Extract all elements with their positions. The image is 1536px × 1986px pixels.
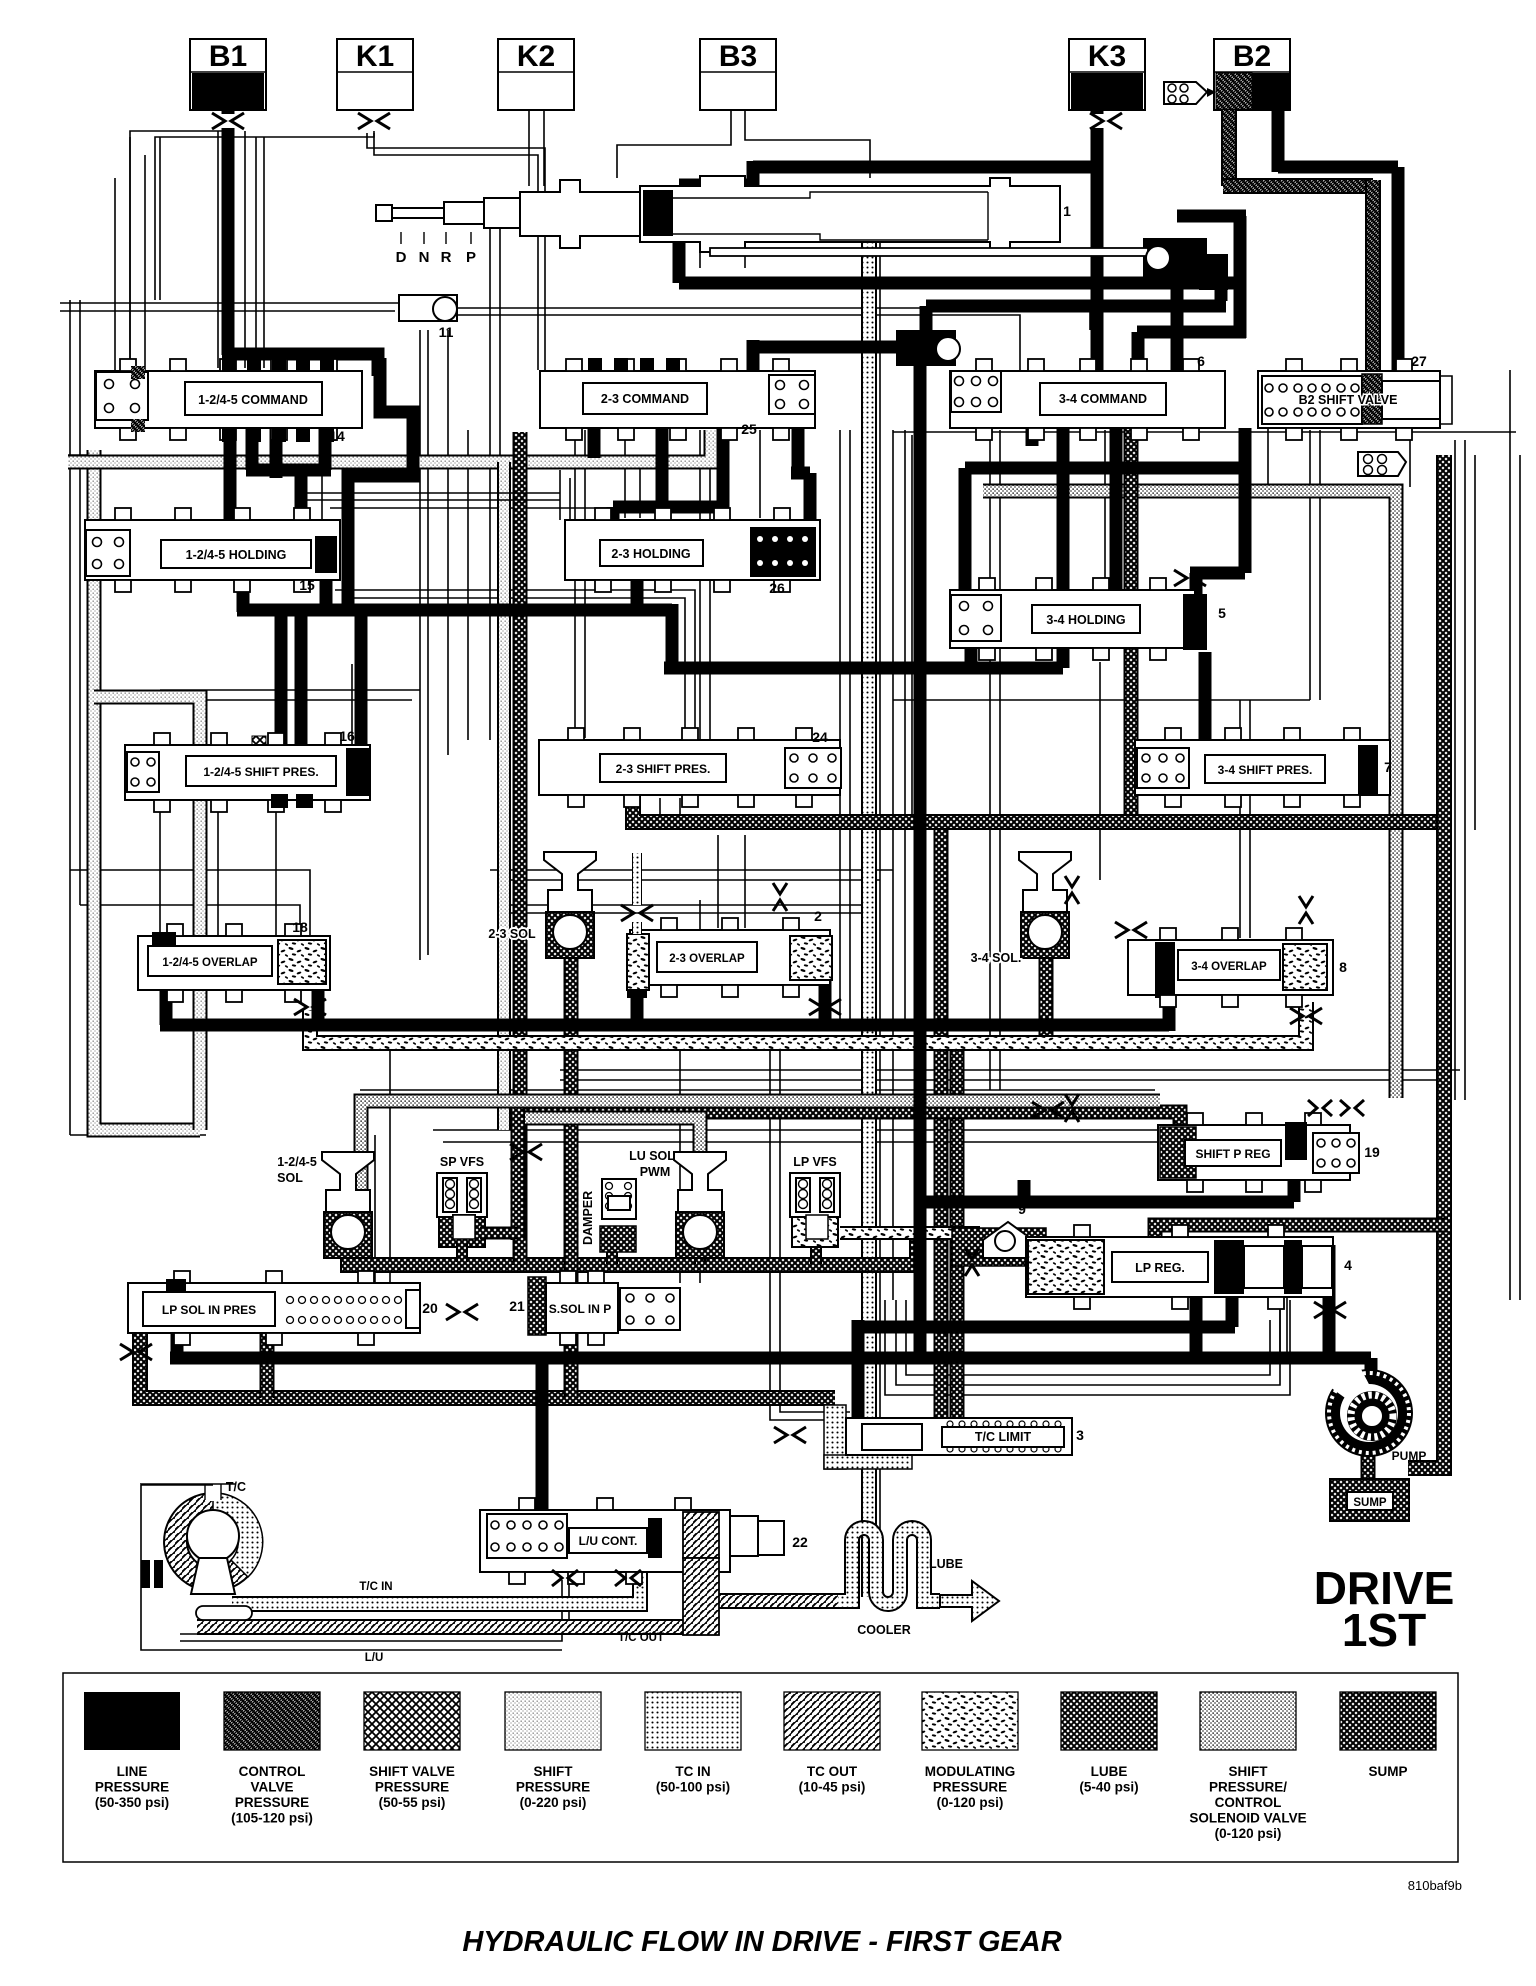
line pressure wire (613, 501, 729, 514)
wire (445, 232, 447, 244)
wire (220, 1484, 222, 1500)
line sump 3-4 sol drain (1039, 950, 1054, 1040)
wire (101, 559, 160, 561)
wire (68, 454, 88, 456)
clutch box K1 (337, 39, 413, 110)
line pressure top bar K3 (753, 161, 1101, 174)
svg-text:S.SOL IN P: S.SOL IN P (549, 1302, 611, 1316)
svg-text:MODULATING: MODULATING (925, 1764, 1016, 1779)
line pressure bar1 (237, 604, 672, 617)
wire (490, 869, 893, 871)
svg-text:1-2/4-5: 1-2/4-5 (277, 1155, 317, 1169)
line pressure wire (1365, 1358, 1378, 1372)
wire (584, 430, 586, 738)
line pressure wire (270, 415, 283, 478)
hydraulic line (934, 1398, 949, 1420)
svg-text:L/U CONT.: L/U CONT. (579, 1534, 638, 1548)
wire K2 down (528, 110, 530, 186)
wire right frame (1454, 440, 1456, 1100)
line pressure main bottom bar (170, 1352, 1371, 1365)
line pressure wire (295, 612, 308, 750)
line pressure wire (791, 467, 810, 480)
manual selector valve 1 (376, 176, 1060, 252)
line sump bottom frame (140, 1283, 835, 1398)
wire (217, 808, 219, 936)
wire (498, 71, 574, 73)
wire (360, 1089, 1155, 1091)
wire K1 down (374, 133, 538, 370)
orifice 20 (446, 1304, 478, 1320)
svg-text:19: 19 (1364, 1144, 1380, 1160)
svg-text:1-2/4-5 OVERLAP: 1-2/4-5 OVERLAP (162, 957, 258, 969)
hydraulic line (632, 922, 642, 934)
valve 1-2/4-5 OVERLAP (138, 936, 330, 990)
line pressure command to holding (224, 415, 237, 524)
wire (1509, 370, 1511, 1300)
clutch box B2 (1214, 39, 1290, 110)
wire (999, 430, 1001, 1090)
line sump sp vfs drain (456, 1243, 468, 1262)
line control valve from B2 (1221, 110, 1237, 186)
line sump 2-3 sol drain (564, 952, 579, 1398)
orifice 3-4 sol (1115, 922, 1147, 938)
hydraulic line (525, 1118, 700, 1198)
svg-text:14: 14 (329, 428, 345, 444)
clutch box B1 (190, 39, 266, 110)
line pressure bar1 to shiftpres a (275, 612, 288, 750)
wire (717, 835, 719, 928)
line pressure B2 down (1272, 110, 1285, 172)
line sump center vertical (934, 822, 949, 1420)
port black holding34 right 5 (1183, 594, 1207, 650)
wire (80, 905, 300, 935)
wire (427, 330, 429, 955)
line pressure top bar B2 (1278, 161, 1398, 174)
svg-text:PRESSURE: PRESSURE (375, 1780, 449, 1795)
clutch box B3 (700, 39, 776, 110)
svg-text:(50-100 psi): (50-100 psi) (656, 1780, 730, 1795)
svg-text:T/C: T/C (226, 1480, 246, 1494)
line pressure under command b (319, 415, 332, 470)
line pressure wire (1226, 1297, 1239, 1327)
wire (987, 192, 989, 240)
svg-text:LP REG.: LP REG. (1135, 1261, 1185, 1275)
svg-text:PRESSURE: PRESSURE (235, 1795, 309, 1810)
line pressure wire (222, 110, 235, 114)
orifice sp vfs line (510, 1144, 542, 1160)
wire (904, 830, 906, 1022)
wire (70, 1134, 206, 1136)
line sump LP REG top bar (1155, 1225, 1448, 1252)
svg-text:SHIFT: SHIFT (1229, 1764, 1269, 1779)
svg-text:PRESSURE/: PRESSURE/ (1209, 1780, 1287, 1795)
wire (467, 430, 469, 740)
wire (1440, 376, 1452, 424)
wire (1099, 662, 1101, 880)
svg-text:1ST: 1ST (1342, 1604, 1426, 1656)
wire (574, 430, 576, 740)
svg-text:20: 20 (422, 1300, 438, 1316)
valve 3-4 COMMAND (950, 371, 1225, 428)
orifice below K1 (358, 113, 390, 129)
hydraulic line (511, 1108, 526, 1240)
wire (543, 110, 545, 186)
wire (911, 435, 913, 820)
svg-text:2-3 HOLDING: 2-3 HOLDING (611, 547, 690, 561)
svg-text:18: 18 (292, 919, 308, 935)
line pressure to box 26 (792, 410, 805, 473)
svg-text:7: 7 (1384, 759, 1392, 775)
svg-text:27: 27 (1411, 353, 1427, 369)
port black 3-4 overlap left (1155, 942, 1175, 994)
svg-text:(10-45 psi): (10-45 psi) (799, 1780, 866, 1795)
line solenoid pressure right (983, 491, 1396, 1098)
wire (1239, 700, 1241, 938)
line sump lu sol drain (694, 1252, 706, 1264)
svg-text:PRESSURE: PRESSURE (516, 1780, 590, 1795)
wire (217, 131, 219, 368)
svg-text:T/C LIMIT: T/C LIMIT (975, 1430, 1032, 1444)
line pressure bar to command (222, 354, 378, 376)
svg-text:PRESSURE: PRESSURE (95, 1780, 169, 1795)
svg-text:3-4 SHIFT PRES.: 3-4 SHIFT PRES. (1218, 763, 1313, 777)
wire (141, 1485, 562, 1650)
check valve 9 (983, 1222, 1033, 1258)
orifice right of 2-3 sol (621, 905, 653, 921)
wire (699, 1255, 701, 1283)
svg-text:L/U: L/U (365, 1652, 384, 1664)
svg-text:2-3 OVERLAP: 2-3 OVERLAP (669, 953, 745, 965)
clutch box K2 (498, 39, 574, 110)
line pressure 2-3 cmd down (717, 416, 730, 513)
wire B1 left (130, 131, 228, 372)
svg-text:(5-40 psi): (5-40 psi) (1079, 1780, 1138, 1795)
svg-text:K3: K3 (1088, 40, 1126, 73)
svg-text:COOLER: COOLER (857, 1623, 910, 1637)
wire (351, 664, 353, 745)
orifice tc in b (615, 1570, 641, 1586)
svg-text:B3: B3 (719, 40, 757, 73)
svg-text:P: P (466, 249, 476, 266)
svg-text:HYDRAULIC FLOW IN DRIVE - FIRS: HYDRAULIC FLOW IN DRIVE - FIRST GEAR (462, 1926, 1061, 1958)
line pressure wire (959, 468, 972, 596)
line pressure wire (1137, 326, 1246, 339)
line modulating to check9 (840, 1226, 980, 1240)
line pressure stub y1190 (1018, 1180, 1031, 1202)
svg-text:SHIFT P REG: SHIFT P REG (1195, 1147, 1270, 1161)
line pressure wire (1215, 284, 1228, 301)
line pressure long bar y283 (679, 277, 1246, 290)
line pressure wire (246, 464, 331, 477)
orifice shift p reg line (1032, 1102, 1064, 1118)
svg-text:B1: B1 (209, 40, 247, 73)
svg-text:TC OUT: TC OUT (807, 1764, 858, 1779)
svg-text:LINE: LINE (117, 1764, 148, 1779)
manual valve black land (643, 190, 673, 236)
valve 3-4 SHIFT PRES (1135, 740, 1390, 795)
line pressure to B2 shift valve (1392, 167, 1405, 390)
wire (400, 232, 402, 244)
svg-text:1-2/4-5 SHIFT PRES.: 1-2/4-5 SHIFT PRES. (203, 765, 318, 779)
line pressure wire (1288, 1150, 1301, 1202)
pump (1325, 1369, 1413, 1457)
svg-text:PUMP: PUMP (1392, 1449, 1427, 1463)
port black 2-3 overlap left (627, 938, 647, 998)
svg-text:B2: B2 (1233, 40, 1271, 73)
svg-text:25: 25 (741, 421, 757, 437)
connector symbol at B2 (1164, 82, 1216, 104)
svg-text:3-4 COMMAND: 3-4 COMMAND (1059, 392, 1147, 406)
line pressure wire (965, 640, 978, 668)
wire (489, 225, 491, 740)
line pressure holding34 to shiftpres (1199, 652, 1212, 748)
orifice tc in a (552, 1570, 578, 1586)
line pressure center long vertical (914, 364, 927, 1358)
wire (180, 1580, 562, 1641)
line pressure bar y468 (965, 462, 1245, 475)
legend swatch CONTROL (224, 1692, 320, 1750)
line pressure 3-4cmd to bar2 (1057, 420, 1070, 668)
wire (159, 137, 161, 300)
svg-text:2-3 SOL: 2-3 SOL (488, 927, 536, 941)
wire (1069, 71, 1145, 73)
svg-text:SOL: SOL (277, 1171, 303, 1185)
line pressure wire (237, 575, 250, 612)
svg-text:PWM: PWM (640, 1165, 671, 1179)
svg-text:(105-120 psi): (105-120 psi) (231, 1811, 313, 1826)
wire (155, 131, 374, 300)
legend swatch SHIFT (1200, 1692, 1296, 1750)
line pressure bar13 (926, 300, 1226, 313)
clutch box K3 (1069, 39, 1145, 110)
line pressure wire (747, 340, 760, 378)
wire (624, 430, 626, 518)
line shift pressure horiz (68, 430, 711, 462)
line pressure 3-4 cmd to holding (1110, 416, 1123, 590)
line sump pump to sump (1361, 1450, 1376, 1482)
wire (839, 430, 841, 1020)
wire (389, 1040, 391, 1283)
port black shiftpres right end (346, 748, 369, 796)
line pressure 2-3 holding down (631, 566, 644, 612)
line pressure cmd34 port (1171, 289, 1184, 416)
valve 3-4 OVERLAP (1128, 940, 1333, 995)
legend swatch LUBE (1061, 1692, 1157, 1750)
svg-text:SHIFT VALVE: SHIFT VALVE (369, 1764, 455, 1779)
wire (433, 1129, 1160, 1131)
line sump sp vfs out (480, 1227, 520, 1240)
wire (569, 478, 571, 520)
wire (443, 1141, 1160, 1143)
line sump main horizontal (633, 790, 1444, 822)
sump (1330, 1479, 1409, 1521)
svg-text:K1: K1 (356, 40, 394, 73)
svg-text:810baf9b: 810baf9b (1408, 1878, 1462, 1893)
wire (114, 178, 116, 372)
svg-text:24: 24 (812, 729, 828, 745)
arrows below 9 (965, 1248, 979, 1276)
wire (244, 131, 246, 368)
legend swatch TC OUT (784, 1692, 880, 1750)
svg-text:LUBE: LUBE (929, 1557, 963, 1571)
port black shiftpres34 right 7 (1358, 745, 1378, 795)
svg-text:PRESSURE: PRESSURE (933, 1780, 1007, 1795)
svg-text:SOLENOID VALVE: SOLENOID VALVE (1189, 1811, 1306, 1826)
hydraulic line (632, 853, 642, 905)
wire valve11 right (456, 308, 1090, 330)
line pressure wire (656, 416, 669, 507)
wire center long left (419, 330, 421, 960)
line pressure wire (666, 604, 679, 668)
svg-text:(0-220 psi): (0-220 psi) (520, 1795, 587, 1810)
line pressure wire (312, 988, 325, 1025)
wire (345, 598, 685, 742)
svg-text:(0-120 psi): (0-120 psi) (937, 1795, 1004, 1810)
line sump check9 to lpreg (1033, 1252, 1056, 1276)
line pressure wire (747, 161, 760, 186)
line shift pressure center-left (497, 462, 511, 1130)
wire (1279, 1297, 1281, 1358)
line pressure wire (1163, 948, 1176, 1031)
wire (639, 455, 641, 518)
orifice below overlap23 (809, 999, 841, 1015)
valve 2-3 SHIFT PRES (539, 740, 840, 795)
wire (906, 1300, 1270, 1375)
flow arrows above 2 (773, 883, 787, 911)
wire (500, 904, 868, 906)
wire (1104, 430, 1106, 590)
wire (129, 137, 131, 372)
wire to valve 11 (60, 302, 399, 304)
wire (159, 808, 161, 936)
line pressure to TC limit (852, 1320, 865, 1424)
wire (780, 1050, 850, 1412)
svg-text:CONTROL: CONTROL (239, 1764, 306, 1779)
wire (160, 699, 412, 701)
valve LP SOL IN PRES (128, 1283, 420, 1333)
legend box (63, 1673, 1458, 1862)
wire (263, 137, 265, 368)
arrows left shift p reg (1065, 1094, 1079, 1122)
valve 1-2/4-5 HOLDING (85, 520, 340, 580)
line shift pressure vertical center (861, 200, 877, 1597)
wire (699, 252, 701, 268)
wire (79, 300, 81, 905)
line pressure wire (631, 988, 644, 1025)
port black holding right (315, 536, 337, 573)
solenoid 1-2/4-5 SOL (322, 1152, 374, 1258)
line pressure wire (1091, 110, 1104, 114)
svg-text:3-4 OVERLAP: 3-4 OVERLAP (1191, 961, 1267, 973)
wire (759, 430, 761, 518)
lube arrow (940, 1581, 999, 1621)
wire (709, 430, 711, 740)
svg-text:2: 2 (814, 908, 822, 924)
svg-text:D: D (396, 249, 407, 266)
legend swatch MODULATING (922, 1692, 1018, 1750)
line shift pressure left loop (94, 450, 200, 1130)
wire (700, 71, 776, 73)
svg-text:8: 8 (1339, 959, 1347, 975)
wire (1267, 428, 1269, 487)
port black holding12 right (315, 536, 337, 573)
wire (699, 900, 701, 930)
line pressure wire (355, 612, 368, 752)
line pressure holding to bar1 (320, 570, 333, 612)
wire (1249, 700, 1251, 938)
orifice left of tc limit (774, 1427, 806, 1443)
wire (470, 232, 472, 244)
hydraulic line (94, 697, 200, 1130)
svg-text:R: R (441, 249, 452, 266)
wire (255, 137, 257, 368)
wire L/U (180, 1575, 569, 1634)
wire (892, 430, 894, 1300)
svg-text:(50-55 psi): (50-55 psi) (379, 1795, 446, 1810)
valve 1-2/4-5 SHIFT PRES (125, 745, 370, 800)
line pressure overlap down (160, 946, 173, 1025)
wire (204, 1484, 206, 1500)
line sump 3-4 command down (1124, 416, 1139, 822)
wire (335, 590, 695, 742)
wire (140, 1483, 236, 1485)
svg-text:4: 4 (1344, 1257, 1352, 1273)
wire long center (879, 200, 881, 1590)
line sump center-left vertical (513, 432, 528, 1240)
svg-text:SHIFT: SHIFT (534, 1764, 574, 1779)
svg-text:N: N (419, 249, 430, 266)
wire (510, 912, 868, 914)
svg-text:2-3 SHIFT PRES.: 2-3 SHIFT PRES. (616, 762, 711, 776)
port 2-3 overlap left (627, 934, 649, 990)
line pressure bar y1327 (853, 1321, 1235, 1334)
hydraulic line (513, 1240, 528, 1265)
wire (374, 1135, 376, 1283)
svg-text:SUMP: SUMP (1368, 1764, 1407, 1779)
line sump to shift p reg (520, 1112, 1180, 1134)
svg-text:16: 16 (339, 728, 355, 744)
wire (423, 232, 425, 244)
svg-text:15: 15 (299, 577, 315, 593)
wire (141, 1484, 213, 1486)
valve SHIFT P REG (1158, 1125, 1350, 1180)
svg-text:3-4 HOLDING: 3-4 HOLDING (1046, 613, 1125, 627)
svg-text:9: 9 (1018, 1201, 1026, 1217)
svg-text:VALVE: VALVE (250, 1780, 293, 1795)
wire (447, 330, 449, 755)
svg-text:LP VFS: LP VFS (793, 1155, 837, 1169)
port black 3-4 overlap left (1155, 940, 1175, 998)
line pressure into 3-4 command (1132, 332, 1145, 416)
orifice bottom left (120, 1344, 152, 1360)
wire (160, 689, 420, 691)
wire (330, 507, 700, 509)
wire (904, 430, 906, 830)
line pressure to holding34 right (1190, 567, 1245, 580)
svg-text:LUBE: LUBE (1091, 1764, 1128, 1779)
wire (560, 1079, 1450, 1081)
wire (745, 110, 870, 178)
wire (989, 430, 991, 1090)
wire (499, 225, 501, 740)
wire B3 down (617, 110, 731, 178)
connector below B2 shift valve (1358, 452, 1406, 476)
wire long mid 1070 (560, 1069, 1460, 1071)
cooler coil (838, 1528, 940, 1604)
line modulating pressure (310, 1002, 1306, 1043)
check valve 13 (896, 330, 956, 366)
wire frame bottom (885, 1300, 1290, 1395)
